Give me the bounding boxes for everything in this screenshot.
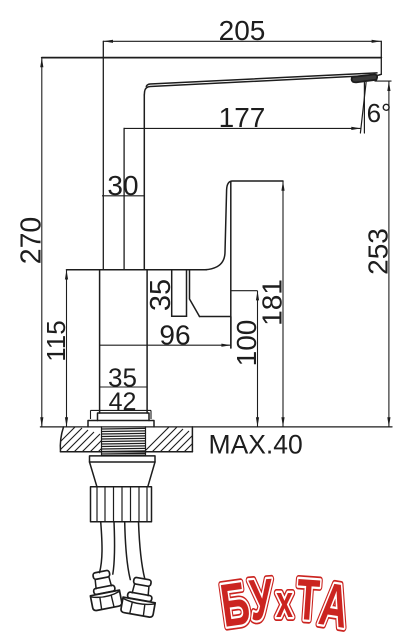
svg-text:100: 100: [231, 320, 262, 367]
svg-text:96: 96: [159, 319, 190, 350]
body bottom line: [200, 316, 231, 318]
svg-text:42: 42: [109, 388, 137, 416]
svg-text:177: 177: [219, 102, 266, 133]
body cartridge neck right edge: [186, 270, 188, 316]
arrow 115 bottom: [65, 417, 68, 427]
svg-text:У: У: [247, 568, 275, 634]
arrow 253 top: [387, 81, 390, 91]
svg-text:181: 181: [257, 279, 288, 326]
dim 30 line: [102, 195, 145, 197]
countertop deck top line: [40, 426, 392, 428]
dim 100 line: [257, 291, 259, 427]
deck hatching right: [136, 425, 225, 478]
svg-text:205: 205: [219, 15, 266, 46]
arrow 205 right: [372, 40, 382, 43]
knurl lines: [97, 487, 147, 522]
spout column right edge: [143, 95, 145, 270]
spout column mid line: [123, 128, 125, 269]
svg-text:6°: 6°: [367, 98, 392, 128]
arrow 181 bottom: [281, 417, 284, 427]
countertop deck left break edge: [60, 427, 63, 452]
flange upper tier: [98, 413, 150, 421]
svg-text:А: А: [315, 569, 353, 640]
body cartridge neck left edge: [171, 270, 173, 316]
arrow 270 bottom: [40, 417, 43, 427]
body top line: [67, 269, 207, 271]
svg-text:MAX.40: MAX.40: [209, 429, 303, 459]
dim 42 line with ticks: [91, 410, 152, 419]
dim 253 top extension: [375, 80, 392, 82]
spout arm underside lower line with fillet to column: [144, 74, 381, 95]
arrow 115 top: [65, 270, 68, 280]
base neck tube left edge: [99, 270, 101, 413]
right hose connector: [120, 576, 158, 618]
dim 100 extension: [231, 290, 258, 292]
flange lower tier: [88, 421, 154, 427]
dimension lines: [42, 41, 392, 427]
aerator at spout tip: [352, 74, 378, 82]
knurled mounting nut: [91, 487, 152, 522]
svg-text:115: 115: [41, 320, 71, 361]
body skirt edge: [190, 270, 200, 317]
arrow 96 right: [221, 344, 231, 347]
arrow 100 bottom: [256, 417, 259, 427]
svg-text:253: 253: [362, 228, 393, 275]
arrow 205 left: [103, 40, 113, 43]
arrow 177 right: [351, 127, 361, 130]
dim 115 line: [66, 270, 68, 427]
arrow 100 top: [256, 291, 259, 301]
red logo BUHTA watermark letters: [216, 568, 353, 640]
spout arm underside upper line: [146, 73, 377, 86]
dim 270 line: [41, 58, 43, 427]
left hose connector: [86, 569, 122, 611]
left hose: [100, 522, 115, 574]
base neck tube right edge: [146, 270, 148, 413]
dim 205 line: [103, 40, 381, 42]
svg-text:х: х: [276, 577, 293, 627]
dim 253 line: [388, 81, 390, 427]
countertop deck right edge: [191, 427, 193, 452]
spout arm top edge: [42, 57, 382, 59]
body cartridge neck bottom: [172, 315, 187, 317]
dim 181 line: [282, 181, 284, 427]
lever handle inner edge: [230, 182, 232, 349]
washer under deck: [90, 456, 156, 462]
water stream tilted 6 deg line: [360, 82, 366, 133]
arrow 253 bottom: [387, 417, 390, 427]
lever handle outline: [205, 181, 283, 270]
spout column left edge: [102, 41, 104, 269]
deck hatching left: [46, 426, 130, 474]
svg-text:30: 30: [107, 170, 138, 201]
shank threads: [102, 428, 146, 455]
countertop deck bottom line: [61, 451, 193, 453]
cone piece: [90, 462, 156, 487]
right hose: [125, 522, 145, 580]
svg-text:35: 35: [145, 279, 177, 311]
spout arm right end edge: [380, 41, 382, 74]
dimension arrows: [40, 40, 390, 427]
dimension texts: [16, 15, 394, 459]
arrow 181 top: [281, 181, 284, 191]
red logo BUHTA watermark outer contour: [216, 568, 353, 640]
arrow 270 top: [40, 58, 43, 68]
dim 35 bottom line: [100, 386, 148, 388]
dim 177 line: [124, 127, 362, 129]
dim 96 line: [100, 344, 232, 346]
svg-text:270: 270: [16, 217, 48, 265]
dim 96 right extension: [230, 317, 232, 349]
vertical reference line at spout tip: [363, 82, 365, 133]
threaded shank edges: [102, 427, 146, 456]
